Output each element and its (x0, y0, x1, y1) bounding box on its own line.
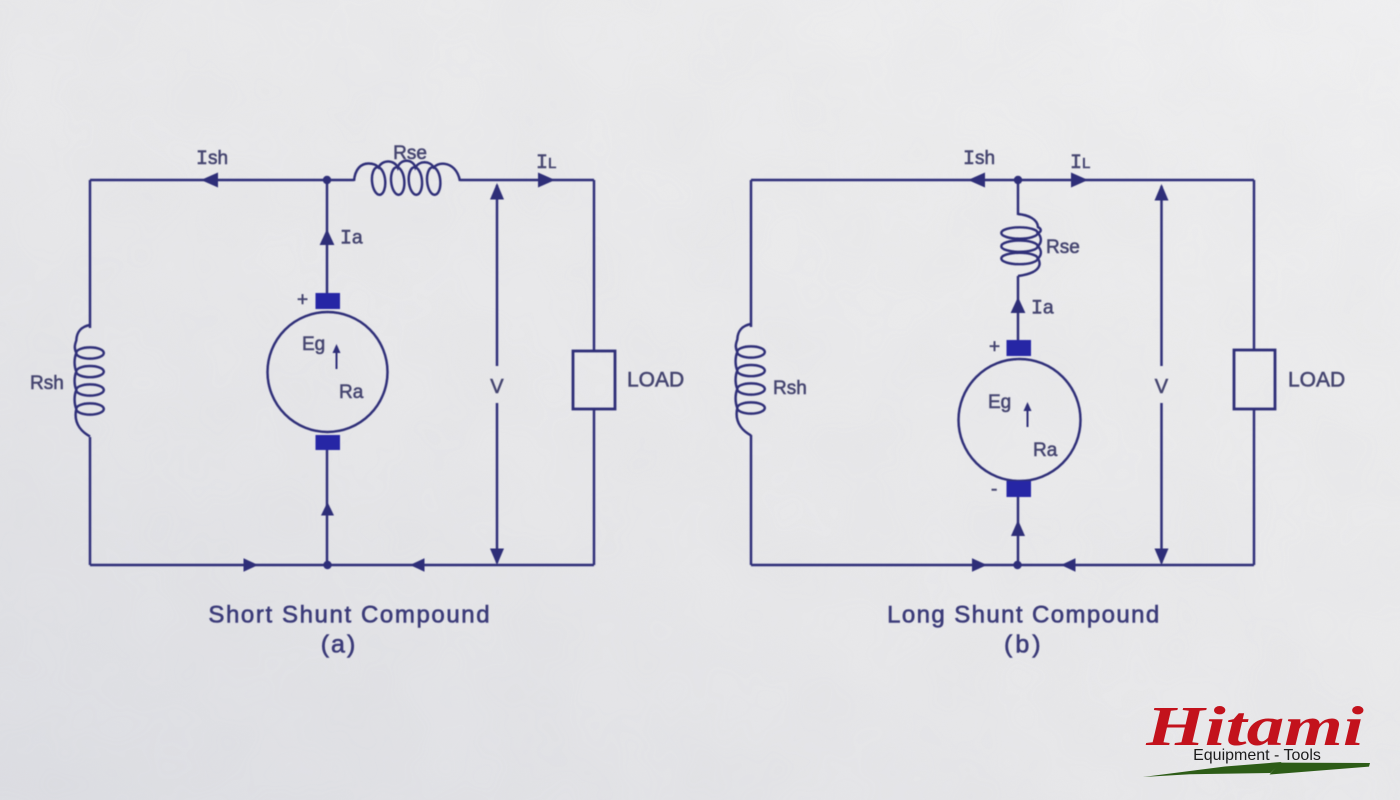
arrow V bottom (down) (490, 549, 504, 566)
wire right vertical lower (593, 409, 595, 565)
svg-text:IL: IL (536, 152, 556, 175)
arrow bottom wire right (left-pointing) (1061, 558, 1076, 572)
terminal brush bottom (316, 435, 341, 450)
svg-text:LOAD: LOAD (1288, 369, 1345, 392)
svg-text:+: + (297, 290, 308, 311)
arrow Ish (left) (968, 173, 985, 188)
svg-text:LOAD: LOAD (627, 369, 684, 392)
arrow IL (right) (1071, 173, 1088, 188)
terminal brush bottom (1007, 481, 1032, 497)
inductor Rsh loops (76, 347, 104, 414)
svg-text:Eg: Eg (988, 392, 1011, 413)
node junction bottom (323, 561, 331, 569)
wire right vertical upper (593, 180, 595, 351)
node junction bottom (1013, 561, 1021, 569)
wire right vertical lower (1253, 409, 1255, 565)
svg-text:-: - (991, 479, 997, 500)
node junction top (1014, 176, 1022, 184)
wire top right segment (460, 179, 594, 181)
svg-text:Short Shunt Compound: Short Shunt Compound (208, 602, 491, 629)
wire armature branch lower (326, 450, 328, 565)
voltmeter line V (1160, 186, 1162, 563)
arrow Eg direction (336, 350, 338, 369)
resistor LOAD box (573, 351, 615, 409)
arrow armature lower lead (up) (321, 502, 334, 516)
wire left vertical upper (89, 180, 91, 328)
terminal + brush top (316, 293, 341, 309)
wire top (751, 179, 1254, 181)
svg-text:Rsh: Rsh (773, 378, 807, 399)
wire left vertical lower (750, 435, 752, 565)
wire right vertical upper (1253, 180, 1255, 350)
svg-text:Ra: Ra (339, 382, 364, 403)
svg-text:+: + (989, 337, 1000, 358)
inductor Rsh (shunt coil, vertical left side) (736, 324, 751, 436)
logo lightning bolt left blade (1143, 762, 1282, 777)
logo lightning bolt right blade (1270, 763, 1371, 775)
wire armature branch upper (326, 180, 328, 293)
wire left vertical upper (750, 180, 752, 327)
wire armature branch top (1017, 180, 1019, 215)
wire armature branch bottom (1017, 497, 1019, 565)
terminal brush top (1007, 340, 1032, 356)
node junction top (323, 176, 331, 184)
svg-text:IL: IL (1070, 152, 1090, 175)
svg-text:Eg: Eg (302, 334, 325, 355)
arrow V top (up) (490, 183, 504, 200)
inductor Rsh loops (737, 346, 765, 413)
svg-text:Long Shunt Compound: Long Shunt Compound (887, 602, 1160, 629)
svg-text:Ia: Ia (340, 228, 363, 251)
svg-text:(b): (b) (1004, 631, 1044, 659)
svg-text:Rse: Rse (393, 143, 427, 164)
arrow bottom wire left (right-pointing) (972, 558, 987, 572)
arrow IL (right) (538, 173, 555, 188)
inductor Rse (series coil, vertical) (1018, 214, 1041, 276)
generator G1 armature circle (268, 312, 388, 432)
arrow V top (up) (1155, 184, 1169, 201)
svg-text:Rsh: Rsh (30, 373, 64, 394)
svg-text:Ish: Ish (963, 148, 995, 171)
arrow Ia (up) (320, 229, 335, 245)
arrow Eg direction (1027, 408, 1029, 427)
generator G2 armature circle (959, 359, 1081, 481)
svg-text:Ia: Ia (1031, 298, 1054, 321)
wire bottom (751, 564, 1254, 566)
resistor LOAD box (1234, 350, 1275, 409)
wire left vertical lower (89, 437, 91, 565)
wire top left segment (90, 179, 354, 181)
svg-text:Ra: Ra (1033, 440, 1058, 461)
arrow Ia (up) (1011, 297, 1026, 313)
svg-text:Rse: Rse (1046, 237, 1080, 258)
wire armature branch mid (1017, 276, 1019, 340)
arrow armature lower lead (up) (1011, 520, 1025, 536)
arrow V bottom (down) (1155, 549, 1169, 566)
svg-text:Equipment - Tools: Equipment - Tools (1193, 747, 1321, 764)
svg-text:V: V (1155, 376, 1169, 398)
svg-text:(a): (a) (321, 631, 358, 659)
inductor Rse loops (1001, 227, 1037, 264)
svg-text:Ish: Ish (196, 148, 228, 171)
wire bottom (90, 564, 594, 566)
svg-text:V: V (490, 376, 504, 398)
arrow Ish (left) (201, 173, 218, 188)
inductor Rse (series field coil, horizontal) (354, 161, 460, 181)
arrow bottom wire left (right-pointing) (244, 558, 259, 572)
arrow bottom wire right (left-pointing) (410, 558, 425, 572)
inductor Rse loops (371, 167, 442, 196)
logo Hitami script (1145, 696, 1364, 758)
inductor Rsh (shunt field coil, vertical left) (75, 325, 90, 437)
voltmeter line V (496, 185, 498, 563)
